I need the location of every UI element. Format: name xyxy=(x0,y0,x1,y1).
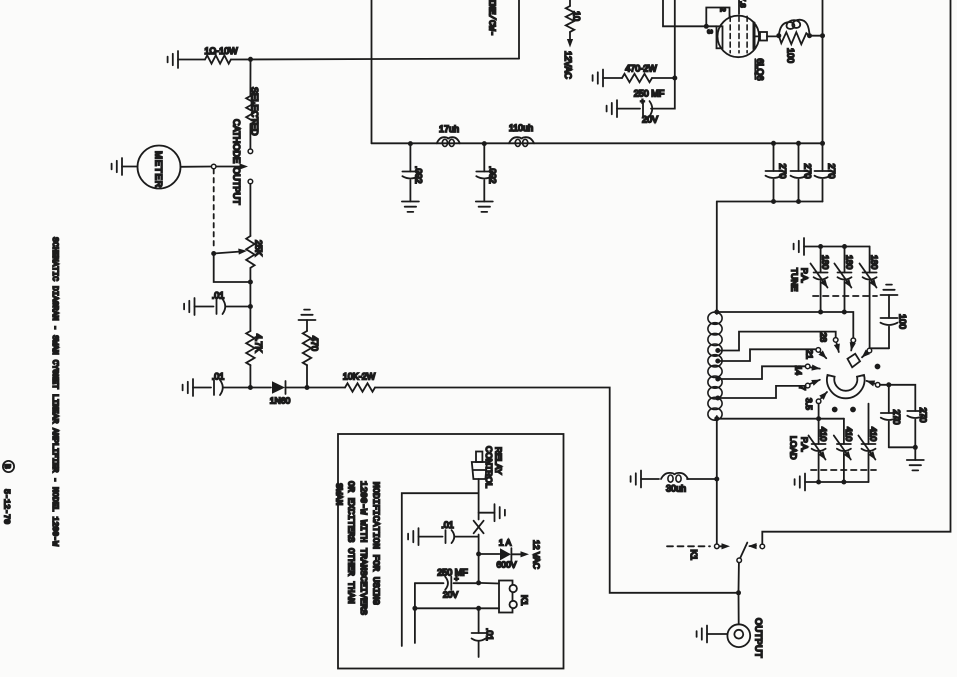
contact X (cut point) xyxy=(474,521,484,534)
wire tank drop xyxy=(716,202,718,313)
capacitor 250MF 20V xyxy=(415,582,444,584)
node xyxy=(842,310,847,315)
node xyxy=(714,477,719,482)
svg-text:270: 270 xyxy=(803,164,813,179)
switch contact lower xyxy=(248,179,253,184)
variable capacitor 180 c xyxy=(869,247,871,273)
svg-text:1200-W WITH TRANSCEIVERS: 1200-W WITH TRANSCEIVERS xyxy=(358,481,369,615)
node xyxy=(771,199,776,204)
svg-text:10K-2W: 10K-2W xyxy=(343,372,376,382)
wire rotor feed xyxy=(844,312,853,338)
node xyxy=(305,385,310,390)
wire xyxy=(810,35,823,37)
svg-text:21: 21 xyxy=(805,350,815,360)
node xyxy=(796,199,801,204)
switch wiper arrow xyxy=(216,166,242,168)
ground G12 (down) xyxy=(914,447,916,460)
svg-text:180: 180 xyxy=(821,255,831,270)
wire xyxy=(870,347,889,349)
suppressor choke xyxy=(779,20,810,36)
connector relay control plug xyxy=(476,452,482,463)
ground G9 xyxy=(607,100,617,117)
wire relay rail xyxy=(415,607,499,609)
resistor 1ohm-10W xyxy=(205,55,231,63)
variable capacitor 180 b xyxy=(844,247,846,273)
potentiometer 25K xyxy=(246,236,254,268)
node xyxy=(816,480,821,485)
node cathode junction xyxy=(248,57,253,62)
wire xyxy=(249,184,251,236)
node xyxy=(482,141,487,146)
wire xyxy=(454,582,479,584)
svg-text:110uh: 110uh xyxy=(509,123,533,133)
svg-text:METER: METER xyxy=(154,151,165,188)
wire 3.5 to load rail xyxy=(818,404,820,419)
wire xyxy=(249,268,251,307)
switch contact upper xyxy=(248,149,253,154)
svg-text:TUNE: TUNE xyxy=(790,268,800,292)
svg-text:OUTPUT: OUTPUT xyxy=(232,167,242,205)
wire xyxy=(249,124,251,149)
node coil top xyxy=(714,310,719,315)
switch contact hi xyxy=(867,348,872,353)
svg-text:10: 10 xyxy=(572,11,582,21)
wire xyxy=(569,0,571,6)
svg-text:B: B xyxy=(2,464,10,469)
capacitor .002 b xyxy=(483,144,485,172)
contact 3.5 xyxy=(816,399,821,404)
dashed K1 linkage xyxy=(667,545,710,547)
svg-text:.01: .01 xyxy=(485,628,495,641)
svg-text:250 MF: 250 MF xyxy=(437,568,468,578)
ground G7 (down) xyxy=(476,202,493,212)
gang dashed line xyxy=(811,469,876,471)
wire to exciter box xyxy=(231,58,519,61)
svg-text:12VAC: 12VAC xyxy=(563,51,573,79)
arrow xyxy=(810,380,820,384)
svg-text:P.A.: P.A. xyxy=(800,268,810,283)
wire blade to output xyxy=(738,563,740,591)
wire xyxy=(178,59,205,61)
blade pivot xyxy=(737,558,742,563)
wire pin2 loop xyxy=(706,8,729,27)
node plate RF junction xyxy=(820,33,825,38)
svg-text:SCHEMATIC DIAGRAM - SWAN CYGNE: SCHEMATIC DIAGRAM - SWAN CYGNET LINEAR A… xyxy=(50,237,59,546)
svg-text:+: + xyxy=(454,574,459,583)
arrow 12 VAC xyxy=(511,553,524,555)
resistor 4.7K xyxy=(249,307,251,332)
node bus end xyxy=(820,141,825,146)
diode 1N60 xyxy=(272,381,285,394)
svg-text:P.A.: P.A. xyxy=(800,437,810,452)
wire xyxy=(181,166,212,168)
wire xyxy=(455,536,479,538)
ground G10 xyxy=(794,238,804,255)
node meter tap xyxy=(211,164,216,169)
wire xyxy=(286,387,346,389)
svg-text:410: 410 xyxy=(819,427,829,442)
ground G14 xyxy=(631,471,641,488)
svg-text:7,8: 7,8 xyxy=(739,0,748,8)
arrow 12VAC xyxy=(569,32,571,44)
wire xyxy=(195,306,214,308)
tube envelope 6LQ6 xyxy=(718,16,760,58)
choke 17uh xyxy=(437,137,460,143)
capacitor .01 a xyxy=(217,299,226,314)
svg-text:180: 180 xyxy=(870,255,880,270)
node xyxy=(248,385,253,390)
wire tap 7 xyxy=(718,386,806,398)
wire tap 14 xyxy=(718,366,806,379)
svg-text:LINE/CW-: LINE/CW- xyxy=(487,0,497,36)
wire xyxy=(889,385,916,411)
wire xyxy=(603,77,622,79)
wire xyxy=(478,535,480,583)
wire long to output xyxy=(375,388,739,593)
arrow xyxy=(837,343,839,352)
contact 14 xyxy=(805,364,810,369)
wire shield branch xyxy=(402,493,479,646)
capacitor .01 d xyxy=(478,608,480,633)
svg-text:270: 270 xyxy=(918,408,928,423)
wire tune rail xyxy=(804,246,870,248)
capacitor 270 c xyxy=(822,143,824,171)
wire 250MF left leg xyxy=(414,583,416,643)
svg-text:3: 3 xyxy=(706,30,715,34)
ground G3 xyxy=(184,298,194,315)
capacitor 270 b xyxy=(798,143,800,171)
svg-text:250 MF: 250 MF xyxy=(634,89,665,99)
node xyxy=(841,480,846,485)
arrow xyxy=(820,352,826,358)
capacitor .002 a xyxy=(409,144,411,172)
rotor arc xyxy=(827,375,865,398)
svg-text:.01: .01 xyxy=(441,520,454,530)
exciter box left edge xyxy=(371,0,373,59)
switch contact output xyxy=(875,383,880,388)
node xyxy=(842,244,847,249)
wire xyxy=(249,365,251,388)
svg-text:17uh: 17uh xyxy=(439,124,459,134)
switch contact rotor-top xyxy=(851,338,856,343)
dashed meter wire xyxy=(213,169,215,250)
wire tank feed rail xyxy=(717,201,823,203)
tube grid 3 (dashed) xyxy=(746,16,748,53)
ground G17 xyxy=(408,528,418,545)
svg-text:K1: K1 xyxy=(520,595,530,606)
wire tune bottom rail xyxy=(717,311,845,313)
node tap 28 xyxy=(715,348,720,353)
node output junction xyxy=(736,590,741,595)
ground G1 xyxy=(168,51,178,68)
resistor SELECTED shunt xyxy=(246,96,254,124)
svg-text:410: 410 xyxy=(844,427,854,442)
wire load bottom rail xyxy=(805,481,869,483)
svg-text:.01: .01 xyxy=(212,291,225,301)
switch stator dot xyxy=(875,364,881,370)
svg-text:4.7K: 4.7K xyxy=(254,334,264,353)
svg-text:470: 470 xyxy=(310,336,320,351)
capacitor 270 d xyxy=(888,385,890,413)
variable capacitor 410 b xyxy=(843,419,845,444)
svg-text:CONTROL: CONTROL xyxy=(484,446,494,488)
wire xyxy=(122,166,138,168)
rotor wiper segment xyxy=(848,354,861,368)
wire xyxy=(738,593,740,625)
wire xyxy=(880,384,889,386)
node xyxy=(818,310,823,315)
capacitor 250MF xyxy=(643,101,652,116)
relay coil K1 xyxy=(499,581,513,613)
node xyxy=(816,416,821,421)
svg-text:25K: 25K xyxy=(254,240,264,256)
node 470-2W junction xyxy=(672,76,677,81)
relay contact NO xyxy=(760,544,765,549)
wire xyxy=(651,78,675,109)
ground G11 (up) xyxy=(881,285,898,295)
tube grid 2 (dashed) xyxy=(738,16,740,53)
wire tap 21 xyxy=(718,349,816,361)
ground G6 (down) xyxy=(402,202,419,212)
svg-text:600V: 600V xyxy=(496,560,516,570)
node xyxy=(886,382,891,387)
wire screen line xyxy=(674,0,676,78)
wire xyxy=(249,59,251,96)
node xyxy=(776,33,781,38)
svg-text:LOAD: LOAD xyxy=(789,436,799,459)
wire xyxy=(687,478,717,480)
node xyxy=(771,141,776,146)
node tap 21 xyxy=(715,359,720,364)
ground G15 xyxy=(707,633,727,635)
arrow xyxy=(821,392,827,398)
svg-text:RELAY: RELAY xyxy=(494,447,504,475)
capacitor .01 b xyxy=(214,380,223,395)
svg-text:100: 100 xyxy=(786,48,796,63)
svg-text:270: 270 xyxy=(778,164,788,179)
svg-text:20V: 20V xyxy=(443,590,459,600)
wire to relay coil xyxy=(479,582,499,585)
node pot bottom xyxy=(248,280,253,285)
wire xyxy=(223,387,271,389)
plate RF line xyxy=(822,0,824,143)
tube plate xyxy=(753,23,756,49)
node xyxy=(807,33,812,38)
svg-text:CATHODE: CATHODE xyxy=(232,119,242,163)
wire tap 28 xyxy=(718,332,836,351)
svg-text:14: 14 xyxy=(794,366,804,376)
wire NO up and right xyxy=(762,0,950,544)
svg-text:410: 410 xyxy=(869,427,879,442)
capacitor 100 xyxy=(888,295,890,318)
ground G13 xyxy=(795,474,805,491)
wire load rail xyxy=(717,418,844,420)
wire xyxy=(419,536,443,538)
suppressor resistor 100 xyxy=(779,32,810,44)
tank coil L1 xyxy=(708,312,722,324)
gang dashed line xyxy=(813,295,877,297)
arrow xyxy=(867,381,875,384)
resistor 470-2W xyxy=(622,74,652,82)
wire wiper-to-bottom xyxy=(214,254,251,283)
arrow xyxy=(851,344,852,351)
choke 110uh xyxy=(509,137,534,143)
resistor 10K-2W xyxy=(345,383,375,391)
ground G5 xyxy=(183,379,193,396)
wire pins 7,8 xyxy=(738,0,740,14)
node xyxy=(412,606,417,611)
variable capacitor 180 a xyxy=(820,247,822,273)
ground G4 (up) xyxy=(299,310,316,320)
contact 21 xyxy=(816,348,821,353)
svg-text:5-12-70: 5-12-70 xyxy=(2,489,12,524)
node xyxy=(476,552,481,557)
svg-text:470-2W: 470-2W xyxy=(625,64,657,74)
revision mark circled B xyxy=(3,461,14,472)
tube cathode xyxy=(717,26,723,48)
capacitor 270 a xyxy=(773,143,775,171)
svg-text:6LQ6: 6LQ6 xyxy=(755,59,765,81)
node xyxy=(796,141,801,146)
svg-text:2: 2 xyxy=(719,8,728,12)
wire xyxy=(641,478,659,480)
wire xyxy=(617,108,640,110)
variable capacitor 410 a xyxy=(818,419,820,444)
svg-text:K1: K1 xyxy=(689,550,699,561)
svg-text:OUTPUT: OUTPUT xyxy=(754,618,764,658)
node xyxy=(408,141,413,146)
modification box xyxy=(338,434,564,669)
svg-text:28: 28 xyxy=(819,333,829,343)
arrow xyxy=(720,545,726,547)
variable capacitor 410 c xyxy=(868,404,870,444)
svg-text:1Ω-10W: 1Ω-10W xyxy=(204,46,238,56)
switch stator dot xyxy=(850,407,856,413)
svg-text:30uh: 30uh xyxy=(666,484,686,494)
plate cap connector xyxy=(754,35,760,37)
node xyxy=(913,445,918,450)
wire xyxy=(889,446,916,448)
svg-text:.002: .002 xyxy=(488,166,498,184)
wire plug down xyxy=(478,479,480,520)
svg-text:+: + xyxy=(640,97,645,106)
wire xyxy=(193,387,211,389)
node tap 7 xyxy=(715,396,720,401)
ground G16 (right) xyxy=(479,512,495,514)
wire grid line xyxy=(663,0,704,26)
svg-text:1 A: 1 A xyxy=(499,538,512,548)
node cap tee xyxy=(248,304,253,309)
svg-text:7: 7 xyxy=(798,386,808,391)
tube grid 1 (dashed) xyxy=(729,16,731,53)
node tap 14 xyxy=(715,377,720,382)
svg-text:.01: .01 xyxy=(212,372,225,382)
bus wire xyxy=(372,142,823,144)
choke 30uh xyxy=(661,473,688,479)
svg-text:180: 180 xyxy=(845,255,855,270)
svg-text:SWAN: SWAN xyxy=(334,483,345,505)
node pin3 junction xyxy=(704,24,709,29)
capacitor .01 c xyxy=(446,530,455,543)
resistor 10 xyxy=(566,6,574,32)
svg-text:SELECTED: SELECTED xyxy=(250,87,260,136)
relay contact NC xyxy=(715,544,720,549)
svg-text:270: 270 xyxy=(827,164,837,179)
ground G2 xyxy=(112,158,122,175)
node coil bottom xyxy=(714,416,719,421)
relay blade xyxy=(740,543,747,558)
wire xyxy=(226,306,251,308)
meter M1 xyxy=(138,146,181,189)
node xyxy=(476,606,481,611)
node wiper tie xyxy=(211,251,216,256)
wire cathode feed xyxy=(706,25,716,27)
connector J1 OUTPUT xyxy=(727,624,750,647)
svg-text:12 VAC: 12 VAC xyxy=(532,540,542,569)
arrow xyxy=(748,543,757,549)
wire xyxy=(306,365,308,388)
exciter box right edge xyxy=(518,0,520,59)
arrow xyxy=(862,353,867,358)
svg-text:3.5: 3.5 xyxy=(804,398,814,410)
wire xyxy=(652,77,675,79)
node xyxy=(476,580,481,585)
svg-text:20V: 20V xyxy=(642,115,658,125)
svg-text:270: 270 xyxy=(892,410,902,425)
svg-text:1N60: 1N60 xyxy=(270,396,291,406)
capacitor 270 e xyxy=(907,411,923,418)
contact 28 xyxy=(833,338,838,343)
resistor 470 xyxy=(306,320,308,331)
diode 1A 600V xyxy=(479,553,500,555)
svg-text:OR EXCITERS OTHER THAN: OR EXCITERS OTHER THAN xyxy=(346,481,357,604)
wire coil to K1 xyxy=(716,419,718,544)
svg-text:MODIFICATION FOR USING: MODIFICATION FOR USING xyxy=(371,482,382,605)
contact 7 xyxy=(805,383,810,388)
ground G8 xyxy=(593,70,603,87)
node xyxy=(818,244,823,249)
svg-text:100: 100 xyxy=(898,314,908,329)
svg-text:.002: .002 xyxy=(414,166,424,184)
wire from exciter box down xyxy=(371,59,373,143)
arrow xyxy=(810,367,820,368)
pot wiper arrow xyxy=(214,252,241,254)
switch stator dot xyxy=(832,407,838,413)
